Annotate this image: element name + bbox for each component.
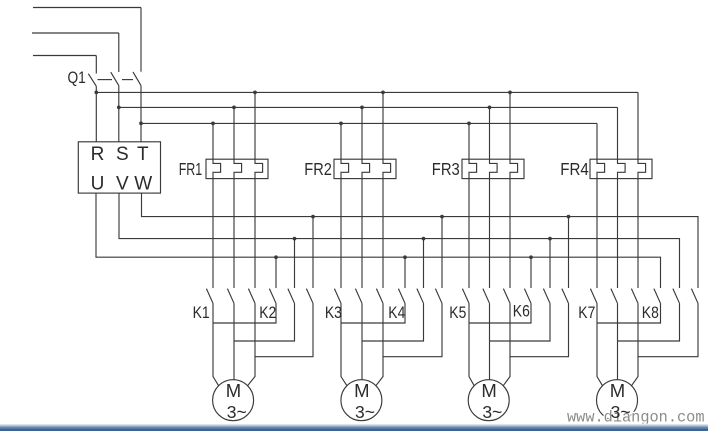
svg-text:K4: K4: [388, 304, 405, 322]
svg-text:Q1: Q1: [68, 69, 86, 87]
svg-text:K1: K1: [193, 304, 210, 322]
svg-text:FR4: FR4: [560, 159, 589, 179]
svg-text:FR1: FR1: [179, 159, 203, 179]
svg-text:M: M: [610, 380, 625, 401]
svg-text:W: W: [134, 174, 152, 195]
svg-text:K6: K6: [513, 303, 530, 321]
svg-text:K2: K2: [259, 304, 276, 322]
svg-text:V: V: [116, 174, 129, 195]
svg-text:K3: K3: [325, 304, 342, 322]
svg-text:M: M: [354, 380, 369, 401]
svg-text:S: S: [116, 144, 129, 165]
svg-text:K7: K7: [578, 304, 595, 322]
svg-text:3~: 3~: [227, 402, 247, 422]
svg-text:FR3: FR3: [432, 159, 460, 179]
svg-text:3~: 3~: [355, 402, 375, 422]
svg-text:R: R: [91, 144, 105, 165]
svg-text:U: U: [91, 174, 105, 195]
svg-text:FR2: FR2: [304, 159, 332, 179]
svg-text:M: M: [226, 380, 241, 401]
svg-text:M: M: [481, 380, 496, 401]
svg-text:3~: 3~: [611, 402, 631, 422]
svg-text:K5: K5: [449, 304, 466, 322]
svg-text:K8: K8: [642, 304, 659, 322]
svg-text:T: T: [137, 144, 149, 165]
svg-text:3~: 3~: [482, 402, 502, 422]
